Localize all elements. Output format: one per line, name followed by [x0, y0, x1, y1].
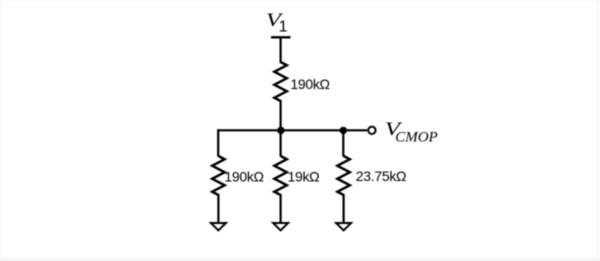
wire R2 bottom to ground — [217, 194, 219, 222]
svg-text:190kΩ: 190kΩ — [290, 76, 329, 92]
resistor R1 190k (top) — [274, 62, 287, 101]
ground symbol left — [211, 223, 226, 230]
supply terminal bar V1 — [271, 36, 291, 38]
wire bus left corner down to R2 — [217, 129, 219, 156]
ground symbol right — [336, 223, 351, 230]
svg-text:190kΩ: 190kΩ — [224, 168, 263, 184]
wire horizontal bus — [218, 129, 343, 131]
wire node right down to R4 — [342, 130, 344, 156]
ground symbol middle — [273, 223, 288, 230]
wire node to output terminal — [343, 129, 367, 131]
wire R3 bottom to ground — [280, 194, 282, 222]
node junction dot right — [340, 127, 347, 134]
svg-text:19kΩ: 19kΩ — [288, 169, 320, 185]
svg-text:CMOP: CMOP — [395, 130, 438, 146]
right edge line — [598, 0, 599, 261]
node junction dot center — [277, 127, 284, 134]
resistor R3 19k (middle) — [274, 156, 287, 195]
resistor R4 23.75k (right) — [337, 156, 350, 195]
left edge line — [0, 0, 1, 261]
svg-text:1: 1 — [279, 19, 288, 36]
top edge line — [0, 0, 600, 1]
wire R1 bottom to node — [280, 100, 282, 130]
wire V1 bar to R1 top — [280, 37, 282, 64]
wire R4 bottom to ground — [343, 194, 345, 222]
resistor R2 190k (left) — [212, 156, 225, 195]
wire node down to R3 — [280, 130, 282, 156]
bottom edge strip — [0, 258, 600, 261]
output terminal circle VCMOP — [368, 127, 375, 134]
svg-text:23.75kΩ: 23.75kΩ — [356, 168, 406, 184]
